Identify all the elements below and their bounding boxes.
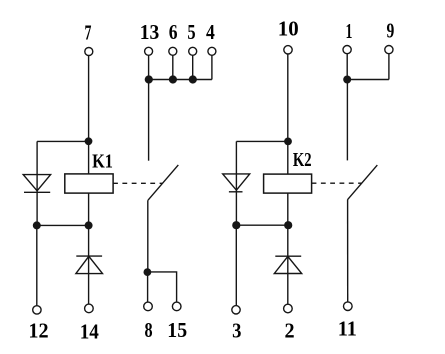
svg-text:K2: K2 — [293, 149, 312, 171]
terminal 8 — [144, 302, 153, 311]
svg-text:K1: K1 — [92, 151, 113, 173]
wire blade K1 to junction B — [147, 200, 149, 272]
switch blade K1 — [148, 165, 178, 200]
wire terminal 9 down — [388, 54, 390, 80]
node A junction dot — [85, 137, 93, 145]
node C junction dot — [284, 138, 292, 146]
svg-text:14: 14 — [80, 319, 100, 343]
svg-text:3: 3 — [232, 318, 241, 342]
terminal 13 — [145, 47, 153, 55]
wire coil bottom to terminal 14 — [88, 225, 90, 304]
terminal 9 — [385, 46, 393, 54]
wire bottom bus K1 — [37, 224, 89, 226]
wire blade K2 to terminal 11 — [347, 200, 349, 302]
wire node A to left branch — [37, 140, 89, 142]
svg-text:4: 4 — [206, 20, 215, 44]
wire to terminal 12 — [36, 225, 38, 305]
terminal 11 — [344, 302, 353, 311]
junction dot 13 — [145, 75, 153, 83]
wire terminal 5 down — [192, 55, 194, 79]
terminal 5 — [189, 47, 197, 55]
wire terminal 13 down — [148, 55, 150, 79]
junction dot coil K1 bottom — [85, 221, 93, 229]
svg-text:11: 11 — [338, 317, 357, 341]
wire terminal 10 to node C — [287, 54, 289, 141]
wire terminal 6 down — [172, 55, 174, 79]
svg-text:7: 7 — [85, 20, 92, 44]
wire K2 left branch vertical — [235, 141, 237, 225]
terminal 4 — [208, 47, 216, 55]
wire left branch vertical — [36, 141, 38, 225]
junction dot coil K2 bottom — [284, 221, 292, 229]
junction dot left bottom — [33, 221, 41, 229]
terminal 7 — [85, 48, 93, 56]
svg-text:6: 6 — [169, 20, 178, 44]
svg-text:8: 8 — [144, 318, 152, 342]
wire terminal 1 down — [346, 54, 348, 80]
junction dot 5 — [189, 75, 197, 83]
wire top bus 1-9 — [347, 79, 389, 81]
dashed actuation link K1 — [113, 182, 162, 184]
wire fixed contact K1 switch — [148, 80, 150, 161]
switch blade K2 — [347, 165, 377, 200]
wire terminal 7 to node A — [88, 56, 90, 142]
wire terminal 4 down — [211, 55, 213, 79]
wire to terminal 3 — [235, 225, 237, 305]
svg-text:10: 10 — [278, 16, 299, 40]
wire node A to coil K1 — [88, 141, 90, 174]
terminal 14 — [85, 304, 94, 313]
wire junction B to terminal 8 — [147, 272, 149, 302]
junction dot 6 — [169, 75, 177, 83]
terminal 6 — [169, 47, 177, 55]
terminal 12 — [33, 306, 41, 314]
terminal 1 — [343, 46, 351, 54]
wire junction B to terminal 15 — [147, 272, 176, 302]
terminal 3 — [232, 306, 240, 314]
wire coil K2 to bottom bus — [287, 193, 289, 225]
wire coil K2 bottom to terminal 2 — [287, 225, 289, 304]
diode D3 cathode-down — [223, 174, 250, 192]
svg-text:5: 5 — [187, 20, 195, 44]
dashed actuation link K2 — [312, 182, 362, 184]
diode D2 cathode-up — [76, 256, 103, 274]
svg-text:13: 13 — [140, 20, 160, 44]
svg-text:9: 9 — [387, 18, 395, 42]
terminal 10 — [284, 46, 292, 54]
diode D1 cathode-down — [23, 175, 50, 193]
junction dot B — [144, 268, 152, 276]
wire node C to left branch K2 — [236, 140, 287, 142]
wire bottom bus K2 — [236, 224, 288, 226]
wire fixed contact K2 switch — [346, 80, 348, 161]
relay coil K2 — [264, 174, 312, 193]
relay coil K1 — [65, 174, 113, 193]
diode D4 cathode-up — [274, 256, 301, 273]
svg-text:12: 12 — [28, 319, 48, 343]
svg-text:1: 1 — [346, 19, 353, 43]
terminal 2 — [284, 304, 293, 313]
wire node C to coil K2 — [287, 141, 289, 174]
svg-text:2: 2 — [285, 319, 295, 343]
wire coil K1 to bottom bus — [88, 193, 90, 225]
junction dot K2 left bottom — [232, 221, 240, 229]
wire top bus 13-6-5-4 — [149, 79, 212, 81]
svg-text:15: 15 — [167, 318, 187, 342]
terminal 15 — [172, 302, 181, 311]
junction dot 1 — [343, 76, 351, 84]
